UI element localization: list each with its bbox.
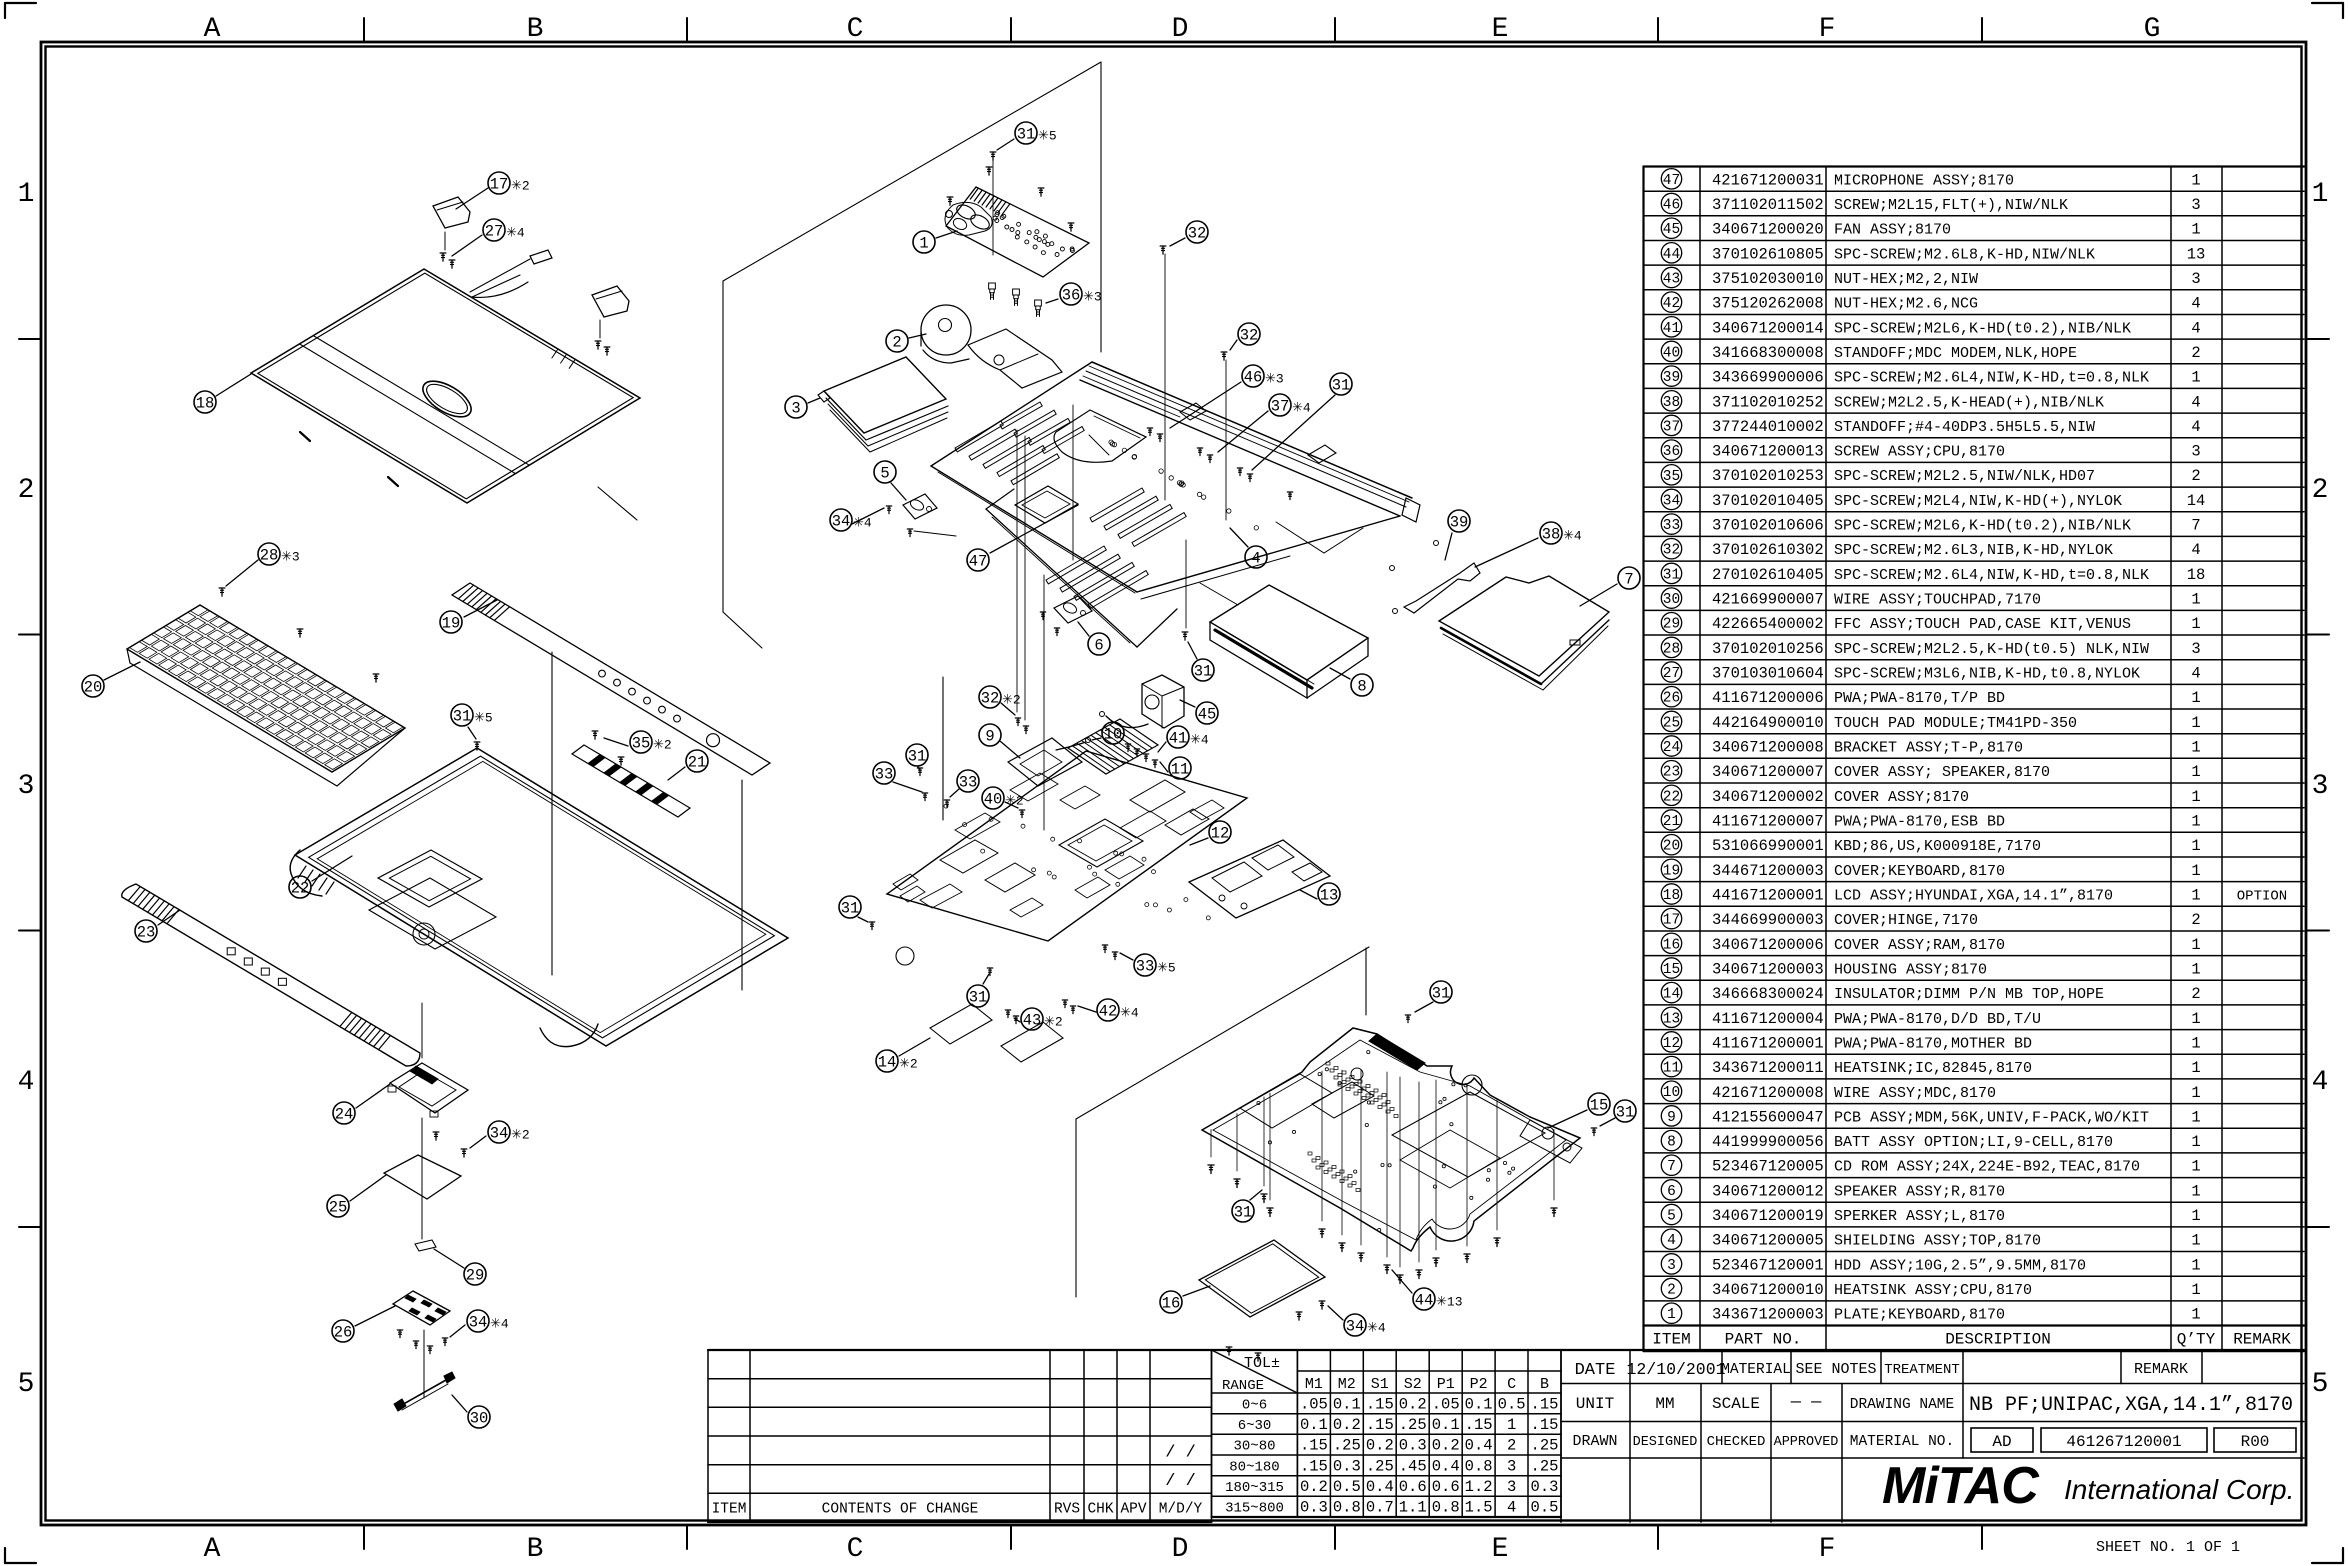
- svg-text:.25: .25: [1333, 1437, 1361, 1455]
- svg-text:1: 1: [2191, 369, 2200, 387]
- svg-text:1: 1: [2191, 221, 2200, 239]
- svg-text:2: 2: [2191, 344, 2200, 362]
- svg-text:375102030010: 375102030010: [1712, 270, 1824, 288]
- svg-text:346668300024: 346668300024: [1712, 985, 1824, 1003]
- svg-text:0.8: 0.8: [1333, 1499, 1361, 1517]
- svg-text:340671200020: 340671200020: [1712, 221, 1824, 239]
- svg-text:5: 5: [2312, 1369, 2329, 1400]
- svg-text:SPC-SCREW;M2L4,NIW,K-HD(+),NYL: SPC-SCREW;M2L4,NIW,K-HD(+),NYLOK: [1834, 493, 2122, 510]
- svg-text:22: 22: [1663, 789, 1680, 805]
- svg-text:WIRE ASSY;TOUCHPAD,7170: WIRE ASSY;TOUCHPAD,7170: [1834, 592, 2041, 609]
- svg-text:28: 28: [1663, 641, 1680, 657]
- svg-text:41: 41: [1663, 321, 1680, 337]
- svg-text:340671200010: 340671200010: [1712, 1281, 1824, 1299]
- svg-text:40: 40: [1663, 345, 1680, 361]
- svg-text:341668300008: 341668300008: [1712, 344, 1824, 362]
- svg-text:.25: .25: [1399, 1416, 1427, 1434]
- svg-text:13: 13: [1663, 1011, 1680, 1027]
- svg-text:MM: MM: [1655, 1395, 1674, 1413]
- svg-text:0.8: 0.8: [1465, 1457, 1493, 1475]
- svg-text:D: D: [1172, 14, 1189, 45]
- svg-text:441999900056: 441999900056: [1712, 1133, 1824, 1151]
- svg-text:✳4: ✳4: [1367, 1321, 1386, 1336]
- svg-text:SCALE: SCALE: [1712, 1395, 1760, 1413]
- svg-text:343671200011: 343671200011: [1712, 1059, 1824, 1077]
- svg-text:8: 8: [1667, 1135, 1676, 1151]
- svg-text:411671200001: 411671200001: [1712, 1034, 1824, 1052]
- svg-text:STANDOFF;#4-40DP3.5H5L5.5,NIW: STANDOFF;#4-40DP3.5H5L5.5,NIW: [1834, 419, 2095, 436]
- svg-text:34: 34: [1663, 493, 1680, 509]
- svg-text:370102610302: 370102610302: [1712, 541, 1824, 559]
- svg-text:340671200008: 340671200008: [1712, 739, 1824, 757]
- svg-text:42: 42: [1663, 296, 1680, 312]
- svg-text:34: 34: [469, 1314, 488, 1332]
- svg-text:SCREW;M2L15,FLT(+),NIW/NLK: SCREW;M2L15,FLT(+),NIW/NLK: [1834, 197, 2068, 214]
- svg-text:SCREW ASSY;CPU,8170: SCREW ASSY;CPU,8170: [1834, 444, 2005, 461]
- svg-text:21: 21: [1663, 814, 1680, 830]
- svg-text:21: 21: [688, 754, 707, 772]
- svg-text:1: 1: [2191, 1084, 2200, 1102]
- svg-text:32: 32: [981, 690, 1000, 708]
- svg-text:M1: M1: [1305, 1376, 1323, 1393]
- svg-text:✳2: ✳2: [1044, 1015, 1063, 1030]
- svg-text:30: 30: [1663, 592, 1680, 608]
- svg-text:B: B: [527, 1534, 544, 1565]
- svg-text:80~180: 80~180: [1229, 1459, 1279, 1475]
- svg-text:2: 2: [2191, 467, 2200, 485]
- svg-text:411671200007: 411671200007: [1712, 813, 1824, 831]
- svg-text:2: 2: [18, 475, 35, 506]
- svg-text:270102610405: 270102610405: [1712, 566, 1824, 584]
- svg-text:344671200003: 344671200003: [1712, 862, 1824, 880]
- svg-text:33: 33: [1663, 518, 1680, 534]
- svg-text:15: 15: [1663, 962, 1680, 978]
- svg-text:14: 14: [878, 1054, 897, 1072]
- svg-text:R00: R00: [2241, 1433, 2270, 1451]
- svg-text:NB PF;UNIPAC,XGA,14.1”,8170: NB PF;UNIPAC,XGA,14.1”,8170: [1969, 1394, 2293, 1417]
- svg-text:✳2: ✳2: [1002, 693, 1021, 708]
- svg-text:14: 14: [2187, 492, 2206, 510]
- svg-text:36: 36: [1062, 287, 1081, 305]
- svg-text:DRAWN: DRAWN: [1572, 1433, 1617, 1450]
- svg-text:26: 26: [334, 1324, 353, 1342]
- svg-text:M/D/Y: M/D/Y: [1159, 1502, 1203, 1518]
- svg-text:340671200006: 340671200006: [1712, 936, 1824, 954]
- svg-text:45: 45: [1663, 222, 1680, 238]
- svg-text:11: 11: [1171, 761, 1190, 779]
- svg-text:31: 31: [908, 748, 927, 766]
- svg-text:1: 1: [919, 235, 928, 253]
- svg-text:32: 32: [1663, 543, 1680, 559]
- svg-text:4: 4: [18, 1067, 35, 1098]
- svg-text:343671200003: 343671200003: [1712, 1306, 1824, 1324]
- svg-text:ITEM: ITEM: [712, 1502, 747, 1518]
- svg-text:340671200002: 340671200002: [1712, 788, 1824, 806]
- svg-text:1: 1: [2191, 1256, 2200, 1274]
- svg-text:1.2: 1.2: [1465, 1478, 1493, 1496]
- svg-text:✳4: ✳4: [1120, 1006, 1139, 1021]
- svg-text:370103010604: 370103010604: [1712, 665, 1824, 683]
- svg-text:43: 43: [1663, 272, 1680, 288]
- svg-text:31: 31: [453, 708, 472, 726]
- svg-text:INSULATOR;DIMM P/N MB TOP,HOPE: INSULATOR;DIMM P/N MB TOP,HOPE: [1834, 986, 2104, 1003]
- svg-text:P2: P2: [1470, 1376, 1488, 1393]
- svg-text:FFC ASSY;TOUCH PAD,CASE KIT,VE: FFC ASSY;TOUCH PAD,CASE KIT,VENUS: [1834, 616, 2131, 633]
- svg-text:370102610805: 370102610805: [1712, 245, 1824, 263]
- svg-text:371102011502: 371102011502: [1712, 196, 1824, 214]
- svg-text:523467120005: 523467120005: [1712, 1158, 1824, 1176]
- svg-text:1: 1: [1507, 1416, 1516, 1434]
- svg-text:KBD;86,US,K000918E,7170: KBD;86,US,K000918E,7170: [1834, 838, 2041, 855]
- svg-text:411671200006: 411671200006: [1712, 689, 1824, 707]
- svg-text:✳3: ✳3: [1083, 290, 1102, 305]
- svg-text:22: 22: [291, 880, 310, 898]
- svg-text:HDD ASSY;10G,2.5”,9.5MM,8170: HDD ASSY;10G,2.5”,9.5MM,8170: [1834, 1257, 2086, 1274]
- svg-text:P1: P1: [1437, 1376, 1455, 1393]
- svg-text:SPEAKER ASSY;R,8170: SPEAKER ASSY;R,8170: [1834, 1183, 2005, 1200]
- svg-text:0.1: 0.1: [1333, 1395, 1361, 1413]
- svg-text:6~30: 6~30: [1238, 1418, 1272, 1434]
- svg-text:SCREW;M2L2.5,K-HEAD(+),NIB/NLK: SCREW;M2L2.5,K-HEAD(+),NIB/NLK: [1834, 394, 2104, 411]
- svg-text:2: 2: [892, 334, 901, 352]
- svg-text:31: 31: [1663, 567, 1680, 583]
- svg-text:✳5: ✳5: [1038, 129, 1057, 144]
- svg-text:38: 38: [1542, 526, 1561, 544]
- svg-text:1: 1: [2191, 887, 2200, 905]
- svg-text:8: 8: [1357, 678, 1366, 696]
- svg-text:5: 5: [880, 465, 889, 483]
- svg-text:REMARK: REMARK: [2233, 1331, 2291, 1349]
- svg-text:370102010256: 370102010256: [1712, 640, 1824, 658]
- svg-text:SPC-SCREW;M2L2.5,K-HD(t0.5) NL: SPC-SCREW;M2L2.5,K-HD(t0.5) NLK,NIW: [1834, 641, 2149, 658]
- svg-text:4: 4: [2191, 418, 2200, 436]
- svg-text:31: 31: [1332, 377, 1351, 395]
- svg-text:0.1: 0.1: [1465, 1395, 1493, 1413]
- svg-text:✳4: ✳4: [490, 1317, 509, 1332]
- svg-text:3: 3: [1507, 1478, 1516, 1496]
- svg-text:.05: .05: [1432, 1395, 1460, 1413]
- svg-text:16: 16: [1663, 937, 1680, 953]
- svg-text:✳2: ✳2: [511, 179, 530, 194]
- svg-text:29: 29: [1663, 617, 1680, 633]
- svg-text:SPC-SCREW;M2L6,K-HD(t0.2),NIB/: SPC-SCREW;M2L6,K-HD(t0.2),NIB/NLK: [1834, 320, 2131, 337]
- svg-text:370102010606: 370102010606: [1712, 517, 1824, 535]
- svg-text:0.6: 0.6: [1432, 1478, 1460, 1496]
- svg-text:34: 34: [490, 1125, 509, 1143]
- svg-text:1: 1: [2191, 739, 2200, 757]
- svg-text:5: 5: [1667, 1209, 1676, 1225]
- svg-text:3: 3: [2191, 443, 2200, 461]
- svg-text:✳5: ✳5: [1157, 961, 1176, 976]
- svg-text:✳2: ✳2: [653, 738, 672, 753]
- svg-text:LCD ASSY;HYUNDAI,XGA,14.1”,817: LCD ASSY;HYUNDAI,XGA,14.1”,8170: [1834, 888, 2113, 905]
- svg-text:0.5: 0.5: [1498, 1395, 1526, 1413]
- svg-text:BATT ASSY OPTION;LI,9-CELL,817: BATT ASSY OPTION;LI,9-CELL,8170: [1834, 1134, 2113, 1151]
- svg-text:30: 30: [470, 1410, 489, 1428]
- svg-text:1: 1: [2191, 1108, 2200, 1126]
- svg-text:.25: .25: [1531, 1437, 1559, 1455]
- svg-text:35: 35: [632, 735, 651, 753]
- svg-text:0~6: 0~6: [1242, 1397, 1267, 1413]
- svg-text:4: 4: [1507, 1499, 1516, 1517]
- svg-text:5: 5: [18, 1369, 35, 1400]
- svg-text:RANGE: RANGE: [1222, 1378, 1264, 1394]
- svg-text:340671200003: 340671200003: [1712, 961, 1824, 979]
- svg-text:4: 4: [1667, 1233, 1676, 1249]
- svg-text:29: 29: [466, 1267, 485, 1285]
- svg-text:1: 1: [2191, 1207, 2200, 1225]
- svg-text:0.3: 0.3: [1531, 1478, 1559, 1496]
- svg-text:1: 1: [2191, 689, 2200, 707]
- svg-text:NUT-HEX;M2.6,NCG: NUT-HEX;M2.6,NCG: [1834, 296, 1978, 313]
- svg-text:4: 4: [2312, 1067, 2329, 1098]
- svg-text:370102010405: 370102010405: [1712, 492, 1824, 510]
- svg-text:7: 7: [2191, 517, 2200, 535]
- svg-text:0.4: 0.4: [1465, 1437, 1493, 1455]
- svg-text:3: 3: [2191, 640, 2200, 658]
- svg-text:SPC-SCREW;M3L6,NIB,K-HD,t0.8,N: SPC-SCREW;M3L6,NIB,K-HD,t0.8,NYLOK: [1834, 666, 2140, 683]
- svg-text:422665400002: 422665400002: [1712, 615, 1824, 633]
- svg-text:20: 20: [1663, 839, 1680, 855]
- svg-text:340671200013: 340671200013: [1712, 443, 1824, 461]
- svg-text:C: C: [1507, 1376, 1516, 1393]
- svg-text:1: 1: [2191, 936, 2200, 954]
- svg-text:1: 1: [2191, 1034, 2200, 1052]
- svg-text:0.4: 0.4: [1366, 1478, 1394, 1496]
- svg-text:340671200019: 340671200019: [1712, 1207, 1824, 1225]
- svg-text:17: 17: [1663, 913, 1680, 929]
- svg-text:6: 6: [1094, 637, 1103, 655]
- svg-text:0.1: 0.1: [1432, 1416, 1460, 1434]
- svg-text:ITEM: ITEM: [1652, 1331, 1690, 1349]
- svg-text:0.2: 0.2: [1399, 1395, 1427, 1413]
- svg-text:180~315: 180~315: [1225, 1480, 1284, 1496]
- svg-text:DATE: DATE: [1575, 1361, 1616, 1380]
- svg-text:1: 1: [2191, 1182, 2200, 1200]
- svg-text:1: 1: [2191, 714, 2200, 732]
- svg-text:.15: .15: [1300, 1457, 1328, 1475]
- svg-text:0.7: 0.7: [1366, 1499, 1394, 1517]
- svg-text:SHEET NO. 1 OF 1: SHEET NO. 1 OF 1: [2096, 1539, 2240, 1556]
- svg-text:1: 1: [2191, 862, 2200, 880]
- svg-text:PCB ASSY;MDM,56K,UNIV,F-PACK,W: PCB ASSY;MDM,56K,UNIV,F-PACK,WO/KIT: [1834, 1109, 2149, 1126]
- svg-text:27: 27: [1663, 666, 1680, 682]
- svg-text:1: 1: [18, 179, 35, 210]
- svg-text:UNIT: UNIT: [1576, 1395, 1614, 1413]
- svg-text:41: 41: [1169, 730, 1188, 748]
- svg-text:441671200001: 441671200001: [1712, 887, 1824, 905]
- svg-text:D: D: [1172, 1534, 1189, 1565]
- svg-text:31: 31: [1234, 1204, 1253, 1222]
- svg-text:1: 1: [2191, 615, 2200, 633]
- svg-text:HEATSINK;IC,82845,8170: HEATSINK;IC,82845,8170: [1834, 1060, 2032, 1077]
- svg-text:16: 16: [1162, 1295, 1181, 1313]
- svg-text:340671200007: 340671200007: [1712, 763, 1824, 781]
- svg-text:26: 26: [1663, 691, 1680, 707]
- svg-text:32: 32: [1188, 225, 1207, 243]
- svg-text:PLATE;KEYBOARD,8170: PLATE;KEYBOARD,8170: [1834, 1307, 2005, 1324]
- svg-text:1: 1: [2191, 763, 2200, 781]
- svg-text:377244010002: 377244010002: [1712, 418, 1824, 436]
- svg-text:24: 24: [335, 1106, 354, 1124]
- svg-text:12: 12: [1663, 1036, 1680, 1052]
- svg-text:✳2: ✳2: [511, 1128, 530, 1143]
- svg-text:37: 37: [1663, 419, 1680, 435]
- svg-text:0.5: 0.5: [1333, 1478, 1361, 1496]
- svg-text:47: 47: [969, 553, 988, 571]
- svg-text:SPERKER ASSY;L,8170: SPERKER ASSY;L,8170: [1834, 1208, 2005, 1225]
- svg-text:1: 1: [2191, 591, 2200, 609]
- svg-text:0.5: 0.5: [1531, 1499, 1559, 1517]
- svg-text:344669900003: 344669900003: [1712, 911, 1824, 929]
- svg-text:340671200014: 340671200014: [1712, 319, 1824, 337]
- svg-text:371102010252: 371102010252: [1712, 393, 1824, 411]
- svg-text:✳4: ✳4: [1292, 401, 1311, 416]
- svg-text:CONTENTS OF CHANGE: CONTENTS OF CHANGE: [822, 1502, 979, 1518]
- svg-text:0.2: 0.2: [1300, 1478, 1328, 1496]
- svg-text:.25: .25: [1366, 1457, 1394, 1475]
- svg-text:3: 3: [1507, 1457, 1516, 1475]
- svg-text:461267120001: 461267120001: [2066, 1433, 2181, 1451]
- svg-text:HEATSINK ASSY;CPU,8170: HEATSINK ASSY;CPU,8170: [1834, 1282, 2032, 1299]
- svg-text:31: 31: [1194, 663, 1213, 681]
- svg-text:MATERIAL: MATERIAL: [1721, 1362, 1791, 1378]
- svg-text:1: 1: [2312, 179, 2329, 210]
- svg-text:27: 27: [485, 223, 504, 241]
- svg-text:4: 4: [2191, 393, 2200, 411]
- svg-text:HOUSING ASSY;8170: HOUSING ASSY;8170: [1834, 962, 1987, 979]
- svg-text:3: 3: [2191, 270, 2200, 288]
- svg-text:0.8: 0.8: [1432, 1499, 1460, 1517]
- svg-text:PWA;PWA-8170,T/P BD: PWA;PWA-8170,T/P BD: [1834, 690, 2005, 707]
- svg-text:1: 1: [2191, 171, 2200, 189]
- svg-text:/ /: / /: [1165, 1443, 1196, 1462]
- svg-text:OPTION: OPTION: [2237, 889, 2287, 905]
- svg-text:.45: .45: [1399, 1457, 1427, 1475]
- svg-text:47: 47: [1663, 173, 1680, 189]
- svg-text:18: 18: [2187, 566, 2206, 584]
- svg-text:421671200031: 421671200031: [1712, 171, 1824, 189]
- svg-text:12/10/2001: 12/10/2001: [1626, 1360, 1725, 1379]
- svg-text:Q’TY: Q’TY: [2177, 1331, 2216, 1349]
- svg-text:46: 46: [1663, 198, 1680, 214]
- svg-text:7: 7: [1624, 571, 1633, 589]
- svg-text:.25: .25: [1531, 1457, 1559, 1475]
- svg-text:421671200008: 421671200008: [1712, 1084, 1824, 1102]
- svg-text:B: B: [1540, 1376, 1549, 1393]
- svg-text:17: 17: [490, 176, 509, 194]
- svg-text:G: G: [2144, 14, 2161, 45]
- svg-text:1: 1: [2191, 837, 2200, 855]
- svg-text:3: 3: [791, 400, 800, 418]
- svg-text:1.5: 1.5: [1465, 1499, 1493, 1517]
- svg-text:35: 35: [1663, 469, 1680, 485]
- svg-text:1: 1: [2191, 1232, 2200, 1250]
- svg-text:43: 43: [1023, 1012, 1042, 1030]
- svg-text:.15: .15: [1465, 1416, 1493, 1434]
- svg-text:23: 23: [137, 924, 156, 942]
- svg-text:1.1: 1.1: [1399, 1499, 1427, 1517]
- svg-text:45: 45: [1198, 706, 1217, 724]
- svg-text:33: 33: [959, 774, 978, 792]
- svg-text:24: 24: [1663, 740, 1680, 756]
- svg-text:39: 39: [1663, 370, 1680, 386]
- svg-text:25: 25: [1663, 715, 1680, 731]
- svg-text:E: E: [1492, 1534, 1509, 1565]
- svg-text:375120262008: 375120262008: [1712, 295, 1824, 313]
- svg-text:411671200004: 411671200004: [1712, 1010, 1824, 1028]
- svg-text:✳3: ✳3: [1265, 372, 1284, 387]
- svg-text:31: 31: [1017, 126, 1036, 144]
- svg-text:SPC-SCREW;M2L6,K-HD(t0.2),NIB/: SPC-SCREW;M2L6,K-HD(t0.2),NIB/NLK: [1834, 518, 2131, 535]
- svg-text:MICROPHONE ASSY;8170: MICROPHONE ASSY;8170: [1834, 172, 2014, 189]
- svg-text:19: 19: [442, 615, 461, 633]
- svg-text:40: 40: [984, 791, 1003, 809]
- svg-text:✳2: ✳2: [899, 1057, 918, 1072]
- svg-text:31: 31: [1432, 985, 1451, 1003]
- svg-text:S2: S2: [1404, 1376, 1422, 1393]
- svg-text:.15: .15: [1366, 1416, 1394, 1434]
- svg-text:421669900007: 421669900007: [1712, 591, 1824, 609]
- svg-text:FAN ASSY;8170: FAN ASSY;8170: [1834, 222, 1951, 239]
- svg-text:COVER ASSY;8170: COVER ASSY;8170: [1834, 789, 1969, 806]
- svg-text:AD: AD: [1992, 1433, 2011, 1451]
- svg-text:COVER;KEYBOARD,8170: COVER;KEYBOARD,8170: [1834, 863, 2005, 880]
- svg-text:DESIGNED: DESIGNED: [1633, 1435, 1698, 1450]
- svg-text:SPC-SCREW;M2.6L3,NIB,K-HD,NYLO: SPC-SCREW;M2.6L3,NIB,K-HD,NYLOK: [1834, 542, 2113, 559]
- svg-text:1: 1: [2191, 1133, 2200, 1151]
- svg-text:36: 36: [1663, 444, 1680, 460]
- svg-text:31: 31: [841, 900, 860, 918]
- svg-text:.15: .15: [1366, 1395, 1394, 1413]
- svg-text:1: 1: [2191, 961, 2200, 979]
- svg-text:0.6: 0.6: [1399, 1478, 1427, 1496]
- svg-text:SEE NOTES: SEE NOTES: [1795, 1361, 1876, 1378]
- svg-text:COVER ASSY; SPEAKER,8170: COVER ASSY; SPEAKER,8170: [1834, 764, 2050, 781]
- svg-text:MiTAC: MiTAC: [1882, 1457, 2040, 1515]
- svg-text:340671200012: 340671200012: [1712, 1182, 1824, 1200]
- svg-text:C: C: [847, 1534, 864, 1565]
- svg-text:✳4: ✳4: [853, 516, 872, 531]
- svg-text:PWA;PWA-8170,MOTHER BD: PWA;PWA-8170,MOTHER BD: [1834, 1035, 2032, 1052]
- svg-text:.15: .15: [1531, 1416, 1559, 1434]
- svg-text:30~80: 30~80: [1233, 1439, 1275, 1455]
- svg-text:SPC-SCREW;M2.6L8,K-HD,NIW/NLK: SPC-SCREW;M2.6L8,K-HD,NIW/NLK: [1834, 246, 2095, 263]
- svg-text:1: 1: [1667, 1307, 1676, 1323]
- svg-text:2: 2: [1507, 1437, 1516, 1455]
- svg-text:0.1: 0.1: [1300, 1416, 1328, 1434]
- svg-text:12: 12: [1211, 825, 1230, 843]
- svg-text:PART NO.: PART NO.: [1725, 1331, 1802, 1349]
- svg-text:370102010253: 370102010253: [1712, 467, 1824, 485]
- svg-text:C: C: [847, 14, 864, 45]
- svg-text:PWA;PWA-8170,ESB BD: PWA;PWA-8170,ESB BD: [1834, 814, 2005, 831]
- svg-text:0.3: 0.3: [1300, 1499, 1328, 1517]
- svg-text:18: 18: [1663, 888, 1680, 904]
- svg-text:DESCRIPTION: DESCRIPTION: [1945, 1331, 2051, 1349]
- svg-text:412155600047: 412155600047: [1712, 1108, 1824, 1126]
- svg-text:3: 3: [18, 771, 35, 802]
- svg-text:1: 1: [2191, 1158, 2200, 1176]
- svg-text:SPC-SCREW;M2.6L4,NIW,K-HD,t=0.: SPC-SCREW;M2.6L4,NIW,K-HD,t=0.8,NLK: [1834, 370, 2149, 387]
- svg-text:TOL±: TOL±: [1244, 1355, 1280, 1372]
- svg-text:42: 42: [1099, 1003, 1118, 1021]
- svg-text:CHECKED: CHECKED: [1707, 1434, 1766, 1450]
- svg-text:33: 33: [1136, 958, 1155, 976]
- svg-text:RVS: RVS: [1054, 1502, 1080, 1518]
- svg-text:1: 1: [2191, 1059, 2200, 1077]
- svg-text:CD ROM ASSY;24X,224E-B92,TEAC,: CD ROM ASSY;24X,224E-B92,TEAC,8170: [1834, 1159, 2140, 1176]
